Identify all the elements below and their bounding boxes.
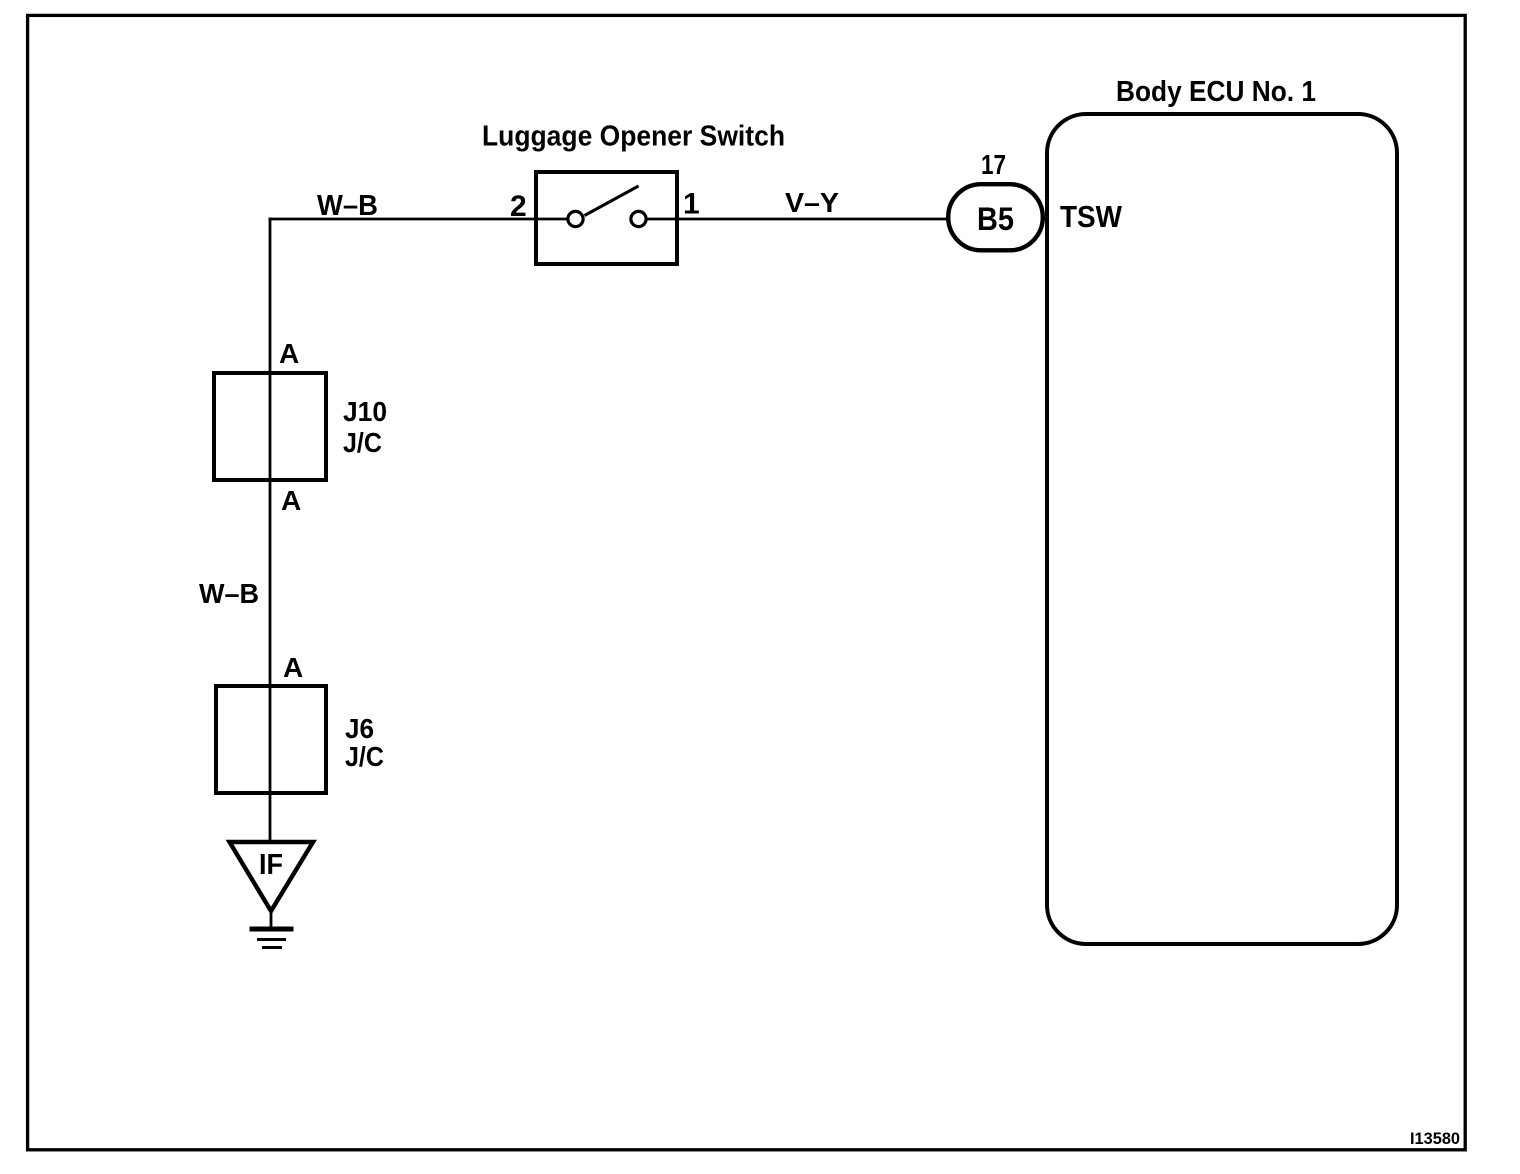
svg-text:J/C: J/C	[343, 427, 382, 458]
wire V-Y	[647, 218, 948, 221]
svg-text:1: 1	[683, 188, 700, 221]
wire W-B vertical	[269, 218, 272, 843]
junction J10	[214, 373, 326, 480]
svg-text:J6: J6	[345, 713, 374, 744]
wire W-B horizontal	[269, 218, 568, 221]
ECU box: Body ECU No. 1	[1047, 114, 1397, 944]
svg-text:V–Y: V–Y	[785, 187, 839, 218]
svg-text:TSW: TSW	[1060, 199, 1123, 234]
ground	[250, 929, 294, 948]
svg-text:J/C: J/C	[345, 741, 384, 772]
svg-text:Luggage Opener Switch: Luggage Opener Switch	[482, 121, 785, 153]
svg-text:W–B: W–B	[199, 578, 259, 609]
ground connector IF	[230, 842, 314, 911]
svg-text:B5: B5	[977, 201, 1014, 237]
svg-text:A: A	[283, 652, 303, 683]
wire to ground	[270, 908, 273, 929]
svg-text:17: 17	[981, 149, 1006, 180]
svg-text:A: A	[279, 338, 299, 369]
connector B5	[948, 184, 1043, 250]
svg-text:W–B: W–B	[317, 190, 378, 222]
svg-text:J10: J10	[343, 396, 387, 427]
svg-text:Body ECU No. 1: Body ECU No. 1	[1116, 76, 1316, 108]
svg-text:IF: IF	[259, 849, 283, 881]
switch: Luggage Opener Switch	[536, 172, 677, 264]
svg-text:A: A	[281, 485, 301, 516]
junction J6	[216, 686, 326, 793]
svg-text:I13580: I13580	[1410, 1129, 1460, 1148]
svg-text:2: 2	[510, 190, 527, 223]
